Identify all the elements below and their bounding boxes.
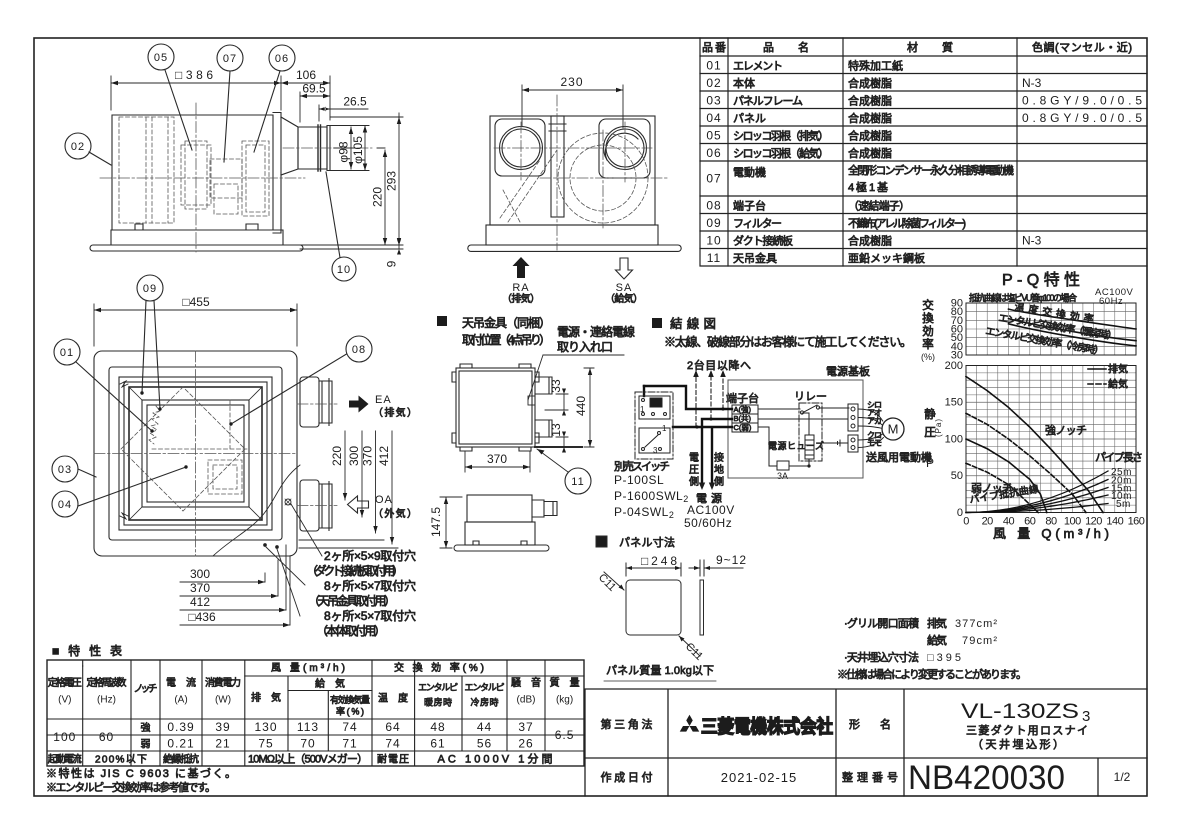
svg-text:26.5: 26.5 <box>343 95 367 109</box>
svg-text:（天井埋込形）: （天井埋込形） <box>972 737 1064 751</box>
svg-text:220: 220 <box>330 446 344 466</box>
svg-text:騒 音: 騒 音 <box>511 676 541 689</box>
svg-text:給気: 給気 <box>1108 378 1128 391</box>
svg-text:8ヶ所×5×7取付穴: 8ヶ所×5×7取付穴 <box>324 578 416 593</box>
svg-text:3: 3 <box>1082 708 1090 725</box>
svg-text:03: 03 <box>58 464 72 476</box>
svg-text:(V): (V) <box>58 695 71 706</box>
svg-text:11: 11 <box>707 251 721 265</box>
svg-text:A(強): A(強) <box>734 404 752 414</box>
svg-text:静: 静 <box>924 407 936 421</box>
svg-text:合成樹脂: 合成樹脂 <box>848 94 892 108</box>
svg-text:06: 06 <box>275 53 289 65</box>
svg-text:33: 33 <box>549 379 563 393</box>
svg-text:412: 412 <box>377 446 391 466</box>
svg-text:05: 05 <box>706 129 721 143</box>
svg-text:370: 370 <box>190 581 210 595</box>
svg-text:エンタルピ: エンタルピ <box>465 683 505 693</box>
svg-text:暖房時: 暖房時 <box>424 697 452 708</box>
svg-text:端子台: 端子台 <box>733 199 766 213</box>
svg-text:06: 06 <box>706 146 721 160</box>
svg-text:エンタルピ: エンタルピ <box>418 683 458 693</box>
svg-text:04: 04 <box>706 111 721 125</box>
svg-text:(dB): (dB) <box>517 695 536 706</box>
svg-text:71: 71 <box>342 737 357 751</box>
svg-text:定格電圧: 定格電圧 <box>48 676 82 689</box>
svg-text:08: 08 <box>706 199 721 213</box>
svg-text:0: 0 <box>957 507 963 519</box>
svg-text:100: 100 <box>945 433 963 445</box>
svg-text:44: 44 <box>477 720 492 734</box>
svg-text:定格周波数: 定格周波数 <box>87 676 127 689</box>
svg-text:200: 200 <box>945 360 963 372</box>
svg-text:370: 370 <box>487 452 507 466</box>
svg-text:□455: □455 <box>182 295 210 309</box>
svg-text:4極1基: 4極1基 <box>848 180 888 194</box>
svg-text:合成樹脂: 合成樹脂 <box>848 146 892 160</box>
svg-text:5m: 5m <box>1116 499 1131 510</box>
svg-text:φ105: φ105 <box>351 136 365 164</box>
svg-text:0.8GY/9.0/0.5: 0.8GY/9.0/0.5 <box>1022 94 1142 108</box>
svg-text:パネル: パネル <box>733 112 766 125</box>
svg-text:9~12: 9~12 <box>716 553 746 567</box>
svg-text:電源基板: 電源基板 <box>826 364 870 378</box>
svg-text:09: 09 <box>706 216 721 230</box>
svg-text:（排気）: （排気） <box>373 406 417 419</box>
svg-text:弱: 弱 <box>141 739 151 751</box>
svg-text:色調(マンセル・近): 色調(マンセル・近) <box>1032 40 1132 54</box>
svg-text:04: 04 <box>58 499 72 511</box>
svg-text:抵抗曲線は塩ビVU管φ100の場合: 抵抗曲線は塩ビVU管φ100の場合 <box>969 292 1077 303</box>
svg-text:VL-130ZS: VL-130ZS <box>961 700 1079 723</box>
svg-text:フィルター: フィルター <box>733 217 782 230</box>
svg-text:端子台: 端子台 <box>726 391 759 405</box>
svg-text:送風用電動機: 送風用電動機 <box>866 450 932 464</box>
svg-text:シロッコ羽根（排気）: シロッコ羽根（排気） <box>733 129 829 143</box>
svg-text:03: 03 <box>706 94 721 108</box>
svg-text:結 線 図: 結 線 図 <box>670 316 716 331</box>
svg-text:B(共): B(共) <box>734 414 752 423</box>
svg-text:1/2: 1/2 <box>1114 770 1131 784</box>
svg-text:パネルフレーム: パネルフレーム <box>733 95 803 108</box>
svg-text:(%): (%) <box>921 352 935 362</box>
svg-text:70: 70 <box>300 737 315 751</box>
svg-text:側: 側 <box>714 475 724 488</box>
svg-text:50: 50 <box>951 470 963 482</box>
svg-text:08: 08 <box>352 344 366 356</box>
svg-text:材 質: 材 質 <box>907 40 953 54</box>
svg-text:37: 37 <box>518 720 533 734</box>
svg-text:56: 56 <box>477 737 492 751</box>
svg-text:ダクト接続板: ダクト接続板 <box>733 234 793 248</box>
svg-text:（外気）: （外気） <box>373 507 417 520</box>
svg-text:電源ヒューズ: 電源ヒューズ <box>768 440 824 451</box>
svg-text:10MΩ以上（500Vメガー）: 10MΩ以上（500Vメガー） <box>248 753 368 766</box>
svg-text:100: 100 <box>53 730 76 744</box>
svg-text:(Pa): (Pa) <box>934 419 943 437</box>
svg-text:0.8GY/9.0/0.5: 0.8GY/9.0/0.5 <box>1022 111 1142 125</box>
svg-text:113: 113 <box>297 720 319 734</box>
svg-text:ノッチ: ノッチ <box>134 683 158 695</box>
svg-text:（速結端子）: （速結端子） <box>848 199 910 213</box>
svg-text:300: 300 <box>190 567 210 581</box>
svg-text:N-3: N-3 <box>1022 234 1042 248</box>
svg-text:電源・連絡電線: 電源・連絡電線 <box>557 324 635 339</box>
svg-text:01: 01 <box>706 59 721 73</box>
svg-text:パネル質量 1.0kg以下: パネル質量 1.0kg以下 <box>606 663 714 677</box>
svg-text:接: 接 <box>714 451 724 464</box>
svg-text:AC100V: AC100V <box>687 503 735 517</box>
svg-text:8ヶ所×5×7取付穴: 8ヶ所×5×7取付穴 <box>324 608 416 623</box>
svg-text:(Hz): (Hz) <box>97 695 116 706</box>
svg-text:パネル寸法: パネル寸法 <box>619 535 675 549</box>
svg-text:200%以下: 200%以下 <box>95 755 147 766</box>
svg-text:有効換気量: 有効換気量 <box>330 694 370 705</box>
svg-text:C(弱): C(弱) <box>734 423 752 432</box>
svg-text:※太線、破線部分はお客様にて施工してください。: ※太線、破線部分はお客様にて施工してください。 <box>664 334 912 349</box>
svg-text:形 名: 形 名 <box>849 717 891 731</box>
svg-text:0.21: 0.21 <box>167 737 194 751</box>
svg-text:地: 地 <box>714 463 724 476</box>
svg-text:耐 電 圧: 耐 電 圧 <box>377 753 409 766</box>
svg-text:230: 230 <box>560 75 583 89</box>
svg-text:P-1600SWL2: P-1600SWL2 <box>614 489 689 504</box>
svg-text:74: 74 <box>342 720 357 734</box>
svg-text:26: 26 <box>518 737 533 751</box>
svg-text:130: 130 <box>254 720 277 734</box>
svg-text:側: 側 <box>689 475 699 488</box>
svg-text:温 度: 温 度 <box>378 692 408 705</box>
svg-text:·天井埋込穴寸法: ·天井埋込穴寸法 <box>844 650 919 664</box>
svg-text:6.5: 6.5 <box>555 728 575 742</box>
svg-text:10: 10 <box>706 234 721 248</box>
svg-text:SA: SA <box>616 282 633 294</box>
svg-text:給 気: 給 気 <box>315 677 345 690</box>
svg-text:05: 05 <box>154 52 168 64</box>
svg-text:39: 39 <box>215 720 230 734</box>
svg-text:N-3: N-3 <box>1022 76 1042 90</box>
svg-text:01: 01 <box>60 347 74 359</box>
svg-text:（排気）: （排気） <box>502 292 540 305</box>
svg-text:09: 09 <box>143 283 157 295</box>
svg-text:60Hz: 60Hz <box>1099 296 1123 307</box>
svg-text:440: 440 <box>574 396 588 416</box>
svg-text:合成樹脂: 合成樹脂 <box>848 234 892 248</box>
svg-text:強: 強 <box>141 721 151 734</box>
svg-text:効: 効 <box>922 324 934 338</box>
svg-text:EA: EA <box>375 394 392 406</box>
svg-text:天吊金具: 天吊金具 <box>733 251 777 265</box>
svg-text:取り入れ口: 取り入れ口 <box>557 340 613 354</box>
svg-text:電 流: 電 流 <box>166 676 196 689</box>
svg-text:冷房時: 冷房時 <box>471 697 499 708</box>
svg-text:（本体取付用）: （本体取付用） <box>316 624 386 638</box>
svg-text:※エンタルピー交換効率は参考値です。: ※エンタルピー交換効率は参考値です。 <box>46 780 216 794</box>
svg-text:3: 3 <box>653 446 658 455</box>
svg-text:交: 交 <box>922 298 934 312</box>
svg-text:147.5: 147.5 <box>429 507 443 537</box>
svg-text:全閉形コンデンサー永久分相誘導電動機: 全閉形コンデンサー永久分相誘導電動機 <box>848 163 1014 177</box>
svg-text:220: 220 <box>371 187 385 207</box>
svg-text:NB420030: NB420030 <box>908 759 1065 797</box>
svg-text:（ダクト接続板取付用）: （ダクト接続板取付用） <box>306 563 404 578</box>
svg-text:50/60Hz: 50/60Hz <box>684 516 732 530</box>
svg-text:P-100SL: P-100SL <box>614 473 664 487</box>
svg-text:02: 02 <box>71 141 85 153</box>
svg-text:69.5: 69.5 <box>302 82 326 96</box>
svg-text:□436: □436 <box>188 610 216 624</box>
svg-text:消費電力: 消費電力 <box>205 676 241 689</box>
svg-text:取付位置（4点吊り）: 取付位置（4点吊り） <box>462 332 551 347</box>
svg-text:0: 0 <box>963 516 969 528</box>
svg-text:48: 48 <box>430 720 445 734</box>
svg-text:給気: 給気 <box>927 633 947 647</box>
svg-text:1: 1 <box>662 424 667 433</box>
svg-text:370: 370 <box>361 446 375 466</box>
svg-text:強ノッチ: 強ノッチ <box>1045 424 1087 437</box>
svg-text:(kg): (kg) <box>556 695 573 706</box>
svg-text:※特性は JIS C 9603 に基づく。: ※特性は JIS C 9603 に基づく。 <box>46 766 236 780</box>
svg-text:質 量: 質 量 <box>550 676 580 689</box>
svg-text:合成樹脂: 合成樹脂 <box>848 111 892 125</box>
svg-text:率: 率 <box>922 337 934 351</box>
svg-text:P-04SWL2: P-04SWL2 <box>614 505 674 520</box>
svg-text:RA: RA <box>512 282 529 294</box>
svg-text:3A: 3A <box>777 471 788 481</box>
svg-text:02: 02 <box>706 76 721 90</box>
svg-text:21: 21 <box>215 737 230 751</box>
svg-text:シロッコ羽根（給気）: シロッコ羽根（給気） <box>733 146 829 160</box>
svg-text:2ヶ所×5×9取付穴: 2ヶ所×5×9取付穴 <box>324 548 416 563</box>
svg-text:絶縁抵抗: 絶縁抵抗 <box>163 753 199 766</box>
svg-text:75: 75 <box>258 737 273 751</box>
svg-text:排気: 排気 <box>1108 363 1128 376</box>
svg-text:2台目以降へ: 2台目以降へ <box>687 358 751 372</box>
svg-text:品 名: 品 名 <box>763 40 809 54</box>
svg-text:三菱電機株式会社: 三菱電機株式会社 <box>701 716 833 737</box>
svg-text:150: 150 <box>945 397 963 409</box>
svg-text:合成樹脂: 合成樹脂 <box>848 129 892 143</box>
svg-text:13: 13 <box>549 423 563 437</box>
svg-text:排 気: 排 気 <box>251 691 281 704</box>
svg-text:三菱ダクト用ロスナイ: 三菱ダクト用ロスナイ <box>966 723 1088 737</box>
svg-text:2021-02-15: 2021-02-15 <box>721 770 798 785</box>
svg-text:79cm²: 79cm² <box>962 635 997 647</box>
svg-text:·グリル開口面積: ·グリル開口面積 <box>844 616 919 630</box>
svg-text:0.39: 0.39 <box>167 720 194 734</box>
svg-text:天吊金具（同梱）: 天吊金具（同梱） <box>462 315 551 330</box>
svg-text:60: 60 <box>99 730 114 744</box>
svg-text:※仕様は場合により変更することがあります。: ※仕様は場合により変更することがあります。 <box>837 667 1027 681</box>
svg-text:106: 106 <box>296 68 316 82</box>
svg-text:64: 64 <box>385 720 400 734</box>
svg-text:61: 61 <box>430 737 445 751</box>
svg-text:アカ: アカ <box>867 417 882 426</box>
svg-text:別売スイッチ: 別売スイッチ <box>614 460 670 473</box>
svg-text:圧: 圧 <box>689 465 699 476</box>
svg-text:300: 300 <box>347 446 361 466</box>
svg-text:07: 07 <box>706 172 721 186</box>
svg-text:10: 10 <box>337 264 351 276</box>
svg-text:(A): (A) <box>174 695 187 706</box>
svg-text:M: M <box>888 422 899 437</box>
svg-text:亜鉛メッキ鋼板: 亜鉛メッキ鋼板 <box>848 251 925 265</box>
svg-text:起動電流: 起動電流 <box>48 753 82 766</box>
svg-text:（天吊金具取付用）: （天吊金具取付用） <box>308 593 396 608</box>
svg-text:20: 20 <box>982 516 994 528</box>
svg-text:412: 412 <box>190 595 210 609</box>
svg-text:特殊加工紙: 特殊加工紙 <box>848 59 903 73</box>
svg-text:交 換 効 率(%): 交 換 効 率(%) <box>394 661 484 674</box>
svg-text:パイプ長さ: パイプ長さ <box>1095 451 1143 464</box>
svg-text:合成樹脂: 合成樹脂 <box>848 76 892 90</box>
svg-text:換: 換 <box>922 312 934 325</box>
svg-text:（給気）: （給気） <box>605 292 643 305</box>
svg-text:本体: 本体 <box>733 76 755 90</box>
svg-text:377cm²: 377cm² <box>955 618 997 630</box>
svg-text:160: 160 <box>1128 516 1145 528</box>
svg-text:エレメント: エレメント <box>733 61 783 73</box>
svg-text:9: 9 <box>385 260 399 267</box>
svg-text:07: 07 <box>223 53 237 65</box>
svg-text:AC 1000V 1分間: AC 1000V 1分間 <box>438 753 553 766</box>
svg-text:排気: 排気 <box>927 616 947 630</box>
svg-text:OA: OA <box>375 494 393 506</box>
svg-text:電: 電 <box>689 452 699 464</box>
svg-text:リレー: リレー <box>794 391 827 403</box>
svg-text:293: 293 <box>385 171 399 191</box>
svg-text:1: 1 <box>640 405 645 414</box>
svg-text:74: 74 <box>385 737 400 751</box>
svg-text:電動機: 電動機 <box>733 165 766 179</box>
svg-text:φ98: φ98 <box>337 141 351 162</box>
svg-text:(W): (W) <box>215 695 231 706</box>
svg-text:11: 11 <box>571 476 584 488</box>
svg-text:不織布(アレル除菌フィルター): 不織布(アレル除菌フィルター) <box>848 216 966 230</box>
